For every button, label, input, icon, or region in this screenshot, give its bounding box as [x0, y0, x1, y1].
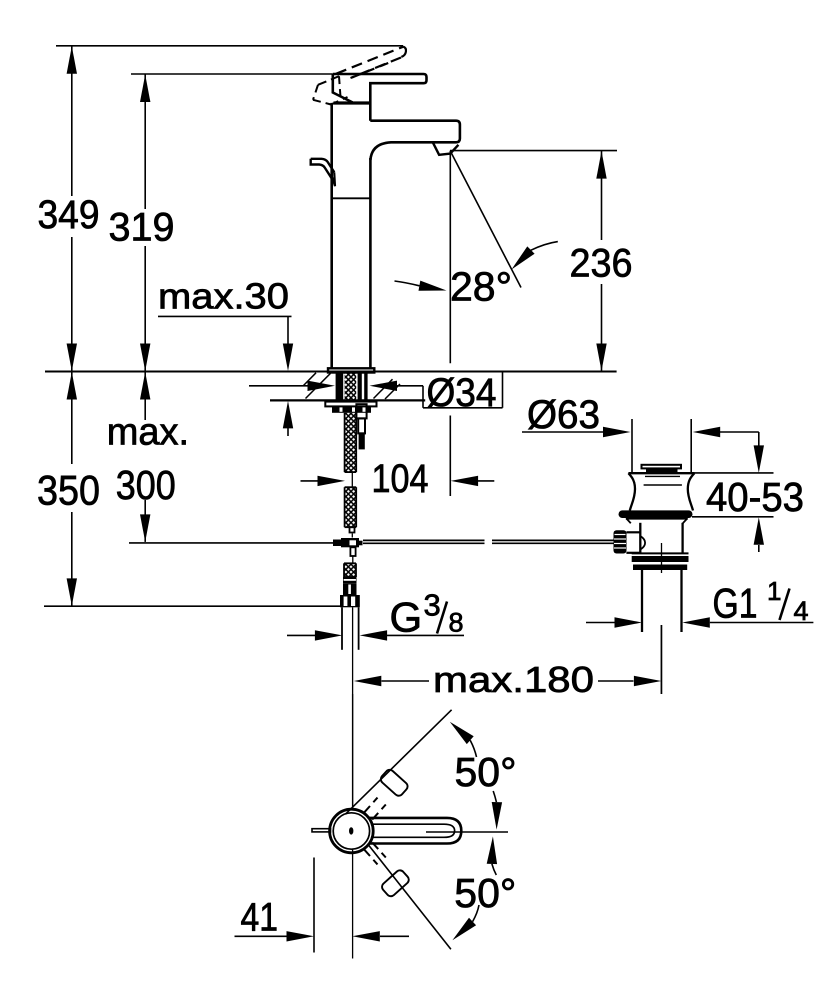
svg-text:max.: max.	[107, 412, 189, 454]
bottom view lever inner	[368, 824, 455, 837]
centre tick 3	[352, 557, 354, 564]
dim 319	[109, 74, 333, 372]
dashed handle raised	[336, 47, 406, 79]
hose tail braid	[344, 563, 356, 577]
dim max.30	[158, 276, 293, 437]
dashed lever 50 up	[364, 768, 409, 820]
handle base joint line	[334, 101, 371, 104]
drain bottom flange	[632, 553, 689, 570]
shank hose section	[345, 373, 357, 400]
svg-text:104: 104	[372, 457, 429, 501]
dim dia63	[522, 393, 759, 437]
dim 104	[301, 457, 495, 501]
rod tee fitting	[333, 538, 363, 547]
svg-text:41: 41	[241, 896, 279, 940]
locknut	[332, 406, 371, 412]
svg-text:319: 319	[109, 206, 175, 250]
deck top line	[45, 371, 617, 373]
dim max.300	[107, 372, 334, 543]
svg-text:28°: 28°	[450, 264, 512, 310]
dim G3/8	[287, 588, 464, 641]
drain flange bell	[628, 473, 694, 510]
hose end stub	[350, 527, 355, 532]
svg-text:G: G	[390, 594, 423, 641]
dim 41	[235, 858, 410, 953]
50 line upper	[345, 710, 451, 814]
svg-text:1: 1	[767, 576, 781, 606]
dim 350	[37, 372, 340, 606]
svg-text:max.180: max.180	[433, 659, 594, 700]
drain body	[640, 523, 682, 554]
dim 349	[38, 46, 404, 372]
drain cap	[642, 465, 682, 473]
svg-text:50°: 50°	[454, 870, 516, 916]
drain branch	[626, 532, 645, 553]
svg-text:50°: 50°	[455, 749, 517, 795]
hose ferrule	[343, 577, 357, 583]
base flange	[328, 368, 374, 372]
deck hatching	[304, 373, 401, 399]
svg-text:300: 300	[116, 462, 176, 508]
50 line lower	[369, 845, 451, 949]
knurled knob	[614, 530, 627, 553]
svg-text:Ø34: Ø34	[427, 371, 497, 415]
pivot screw	[349, 827, 353, 834]
dim max.180	[354, 625, 662, 700]
svg-text:max.30: max.30	[158, 276, 289, 317]
rod stub top view	[312, 829, 331, 832]
supply pipe lines	[342, 607, 359, 650]
svg-text:349: 349	[38, 193, 100, 237]
bottom view lever outline	[365, 818, 461, 844]
faucet handle lever (solid)	[333, 74, 427, 121]
body joint line	[332, 197, 371, 199]
svg-text:Ø63: Ø63	[527, 393, 600, 437]
supply hose upper	[345, 413, 357, 472]
drain flange ext lines	[632, 419, 691, 472]
dashed lever 50 down	[364, 842, 411, 898]
faucet body column	[332, 103, 371, 368]
drain tailpipe	[642, 570, 682, 632]
dim dia34	[249, 371, 503, 415]
G3/8 nut	[340, 595, 360, 607]
spout arm	[370, 121, 460, 160]
centreline below circle	[352, 849, 354, 959]
fitting lower stub	[350, 547, 355, 556]
connector body	[343, 583, 357, 595]
pop-up rod hook	[311, 159, 335, 186]
bell shading lines	[644, 476, 682, 485]
mounting stud	[356, 404, 366, 448]
dim 28deg	[395, 151, 558, 496]
centreline above circle	[352, 694, 354, 808]
drain gasket	[619, 510, 693, 518]
dim 50deg upper	[426, 722, 517, 832]
pop-up rod	[363, 540, 615, 543]
dim 236	[450, 151, 633, 372]
drain centreline	[661, 543, 663, 694]
dashed handle base outline	[313, 76, 348, 104]
threaded shank	[336, 373, 368, 400]
faucet centreline lower	[352, 607, 354, 808]
dim 40-53	[689, 432, 804, 552]
gasket lip	[626, 519, 688, 524]
svg-text:40-53: 40-53	[706, 474, 804, 520]
svg-text:236: 236	[570, 241, 633, 285]
deck bottom line	[270, 399, 425, 401]
handle pivot circle	[330, 809, 374, 853]
svg-text:3: 3	[424, 588, 441, 623]
centre tick 2	[351, 534, 353, 538]
spout aerator	[433, 143, 459, 155]
svg-text:8: 8	[449, 608, 464, 638]
dim 50deg lower	[452, 836, 516, 940]
dim G1 1/4	[586, 576, 813, 628]
hose centre tick	[351, 473, 353, 487]
locknut washer	[325, 402, 376, 407]
svg-text:350: 350	[37, 467, 100, 514]
supply hose lower	[345, 487, 357, 527]
svg-text:G1: G1	[713, 580, 758, 627]
svg-text:4: 4	[794, 596, 809, 626]
